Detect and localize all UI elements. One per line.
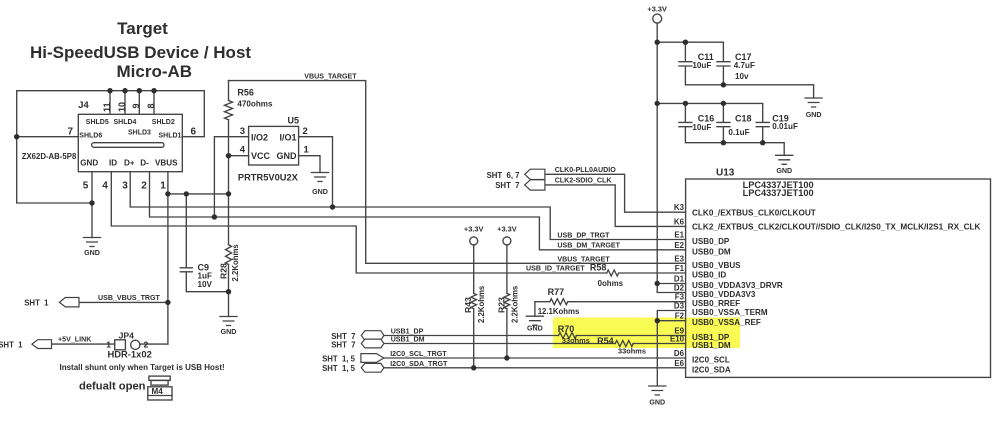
- svg-text:defualt open: defualt open: [79, 380, 146, 392]
- svg-text:SHT 7: SHT 7: [331, 340, 355, 349]
- svg-text:GND: GND: [312, 188, 328, 196]
- svg-text:2.2Kohms: 2.2Kohms: [510, 285, 519, 323]
- svg-text:10V: 10V: [198, 280, 213, 289]
- svg-text:9: 9: [131, 103, 141, 108]
- svg-text:D2: D2: [674, 284, 685, 293]
- svg-text:R70: R70: [558, 324, 575, 334]
- svg-text:ID: ID: [109, 158, 117, 167]
- svg-text:4.7uF: 4.7uF: [734, 61, 755, 70]
- svg-text:+5V_LINK: +5V_LINK: [58, 336, 92, 344]
- svg-text:LPC4337JET100: LPC4337JET100: [743, 188, 814, 198]
- svg-text:E6: E6: [674, 359, 684, 368]
- svg-text:D1: D1: [674, 275, 685, 284]
- svg-text:2: 2: [141, 181, 147, 192]
- svg-text:HDR-1x02: HDR-1x02: [108, 349, 152, 360]
- svg-text:0ohms: 0ohms: [598, 279, 624, 288]
- svg-text:SHLD6: SHLD6: [79, 132, 102, 139]
- svg-text:USB0_DM: USB0_DM: [692, 247, 731, 256]
- svg-text:CLK2_/EXTBUS_CLK2/CLKOUT//SDIO: CLK2_/EXTBUS_CLK2/CLKOUT//SDIO_CLK/I2S0_…: [692, 223, 981, 232]
- svg-text:4: 4: [102, 181, 108, 192]
- svg-text:F2: F2: [675, 312, 685, 321]
- svg-text:10uF: 10uF: [692, 123, 711, 132]
- svg-text:SHT 1: SHT 1: [24, 299, 49, 308]
- svg-text:USB0_RREF: USB0_RREF: [692, 299, 740, 308]
- svg-text:U13: U13: [716, 168, 735, 179]
- svg-text:0.1uF: 0.1uF: [728, 128, 749, 137]
- svg-text:C18: C18: [735, 114, 752, 124]
- svg-text:SHLD5: SHLD5: [86, 119, 109, 126]
- svg-text:GND: GND: [806, 111, 822, 119]
- svg-text:GND: GND: [277, 151, 298, 161]
- svg-text:I2C0_SDA_TRGT: I2C0_SDA_TRGT: [390, 360, 448, 368]
- svg-text:I2C0_SCL: I2C0_SCL: [692, 356, 730, 365]
- svg-text:USB0_VBUS: USB0_VBUS: [692, 261, 741, 270]
- svg-text:CLK0_/EXTBUS_CLK0/CLKOUT: CLK0_/EXTBUS_CLK0/CLKOUT: [692, 209, 816, 218]
- svg-text:11: 11: [102, 102, 112, 112]
- svg-text:R23: R23: [496, 297, 506, 313]
- svg-text:I/O2: I/O2: [251, 132, 268, 142]
- svg-text:F1: F1: [675, 264, 685, 273]
- svg-text:R58: R58: [590, 263, 607, 273]
- svg-text:5: 5: [83, 181, 89, 192]
- svg-text:10uF: 10uF: [692, 61, 711, 70]
- svg-text:Hi-SpeedUSB Device / Host: Hi-SpeedUSB Device / Host: [30, 43, 251, 62]
- svg-text:33ohms: 33ohms: [618, 346, 646, 355]
- svg-text:GND: GND: [84, 249, 100, 257]
- svg-text:SHT 7: SHT 7: [495, 181, 519, 190]
- svg-text:JP4: JP4: [119, 330, 135, 340]
- svg-text:I2C0_SDA: I2C0_SDA: [692, 365, 731, 374]
- svg-text:I/O1: I/O1: [279, 132, 296, 142]
- svg-text:USB0_VSSA_TERM: USB0_VSSA_TERM: [692, 308, 768, 317]
- svg-text:USB0_VDDA3V3: USB0_VDDA3V3: [692, 290, 756, 299]
- svg-text:USB_DM_TARGET: USB_DM_TARGET: [557, 242, 620, 250]
- svg-text:U5: U5: [288, 115, 300, 125]
- svg-text:M4: M4: [152, 387, 164, 396]
- svg-text:3: 3: [240, 126, 245, 137]
- svg-text:USB0_DP: USB0_DP: [692, 237, 730, 246]
- svg-text:PRTR5V0U2X: PRTR5V0U2X: [238, 172, 299, 182]
- svg-text:USB_DP_TRGT: USB_DP_TRGT: [557, 232, 610, 240]
- svg-text:C16: C16: [698, 114, 715, 124]
- svg-text:D6: D6: [674, 349, 685, 358]
- svg-text:VCC: VCC: [251, 151, 271, 161]
- svg-text:C9: C9: [198, 263, 210, 273]
- svg-text:R54: R54: [597, 336, 614, 346]
- svg-text:F3: F3: [675, 293, 685, 302]
- svg-text:+3.3V: +3.3V: [647, 5, 667, 14]
- svg-text:10v: 10v: [735, 72, 749, 81]
- svg-text:E1: E1: [674, 231, 684, 240]
- svg-text:470ohms: 470ohms: [237, 100, 273, 109]
- svg-text:J4: J4: [78, 99, 89, 110]
- svg-text:SHLD3: SHLD3: [128, 129, 151, 136]
- svg-text:Micro-AB: Micro-AB: [117, 62, 193, 81]
- svg-text:SHT 1, 5: SHT 1, 5: [322, 354, 356, 363]
- svg-text:USB1_DM: USB1_DM: [692, 341, 731, 350]
- svg-text:SHT 6, 7: SHT 6, 7: [487, 171, 520, 180]
- svg-text:1: 1: [160, 181, 166, 192]
- svg-text:GND: GND: [776, 167, 792, 175]
- svg-text:D-: D-: [140, 158, 149, 167]
- svg-text:USB0_ID: USB0_ID: [692, 271, 726, 280]
- svg-text:GND: GND: [649, 399, 665, 407]
- svg-text:SHT 1: SHT 1: [0, 341, 23, 350]
- svg-text:+3.3V: +3.3V: [464, 225, 484, 234]
- svg-text:0.01uF: 0.01uF: [772, 122, 798, 131]
- svg-text:3: 3: [122, 181, 128, 192]
- svg-text:SHLD2: SHLD2: [152, 119, 175, 126]
- svg-text:CLK2-SDIO_CLK: CLK2-SDIO_CLK: [555, 176, 613, 184]
- svg-text:CLK0-PLL0AUDIO: CLK0-PLL0AUDIO: [555, 166, 617, 174]
- svg-text:R43: R43: [463, 297, 473, 313]
- svg-text:E2: E2: [674, 241, 684, 250]
- svg-text:2: 2: [303, 126, 308, 137]
- svg-text:R56: R56: [237, 88, 254, 98]
- svg-text:ZX62D-AB-5P8: ZX62D-AB-5P8: [22, 152, 77, 161]
- svg-text:Target: Target: [117, 19, 168, 38]
- svg-text:VBUS: VBUS: [155, 158, 178, 167]
- svg-text:2.2Kohms: 2.2Kohms: [231, 244, 240, 282]
- svg-text:GND: GND: [527, 325, 543, 333]
- svg-text:D3: D3: [674, 302, 685, 311]
- svg-text:E3: E3: [674, 254, 684, 263]
- svg-text:USB_VBUS_TRGT: USB_VBUS_TRGT: [98, 294, 161, 302]
- svg-text:R77: R77: [548, 287, 565, 297]
- svg-text:USB0_VSSA_REF: USB0_VSSA_REF: [692, 318, 761, 327]
- svg-text:D+: D+: [124, 158, 135, 167]
- svg-text:USB0_VDDA3V3_DRVR: USB0_VDDA3V3_DRVR: [692, 281, 783, 290]
- svg-text:+3.3V: +3.3V: [497, 225, 517, 234]
- svg-text:K3: K3: [674, 203, 685, 212]
- svg-text:1: 1: [304, 145, 310, 156]
- svg-text:2.2Kohms: 2.2Kohms: [477, 285, 486, 323]
- svg-text:USB1_DP: USB1_DP: [391, 327, 424, 335]
- svg-text:R28: R28: [219, 263, 229, 279]
- svg-text:4: 4: [240, 145, 246, 156]
- svg-text:GND: GND: [80, 158, 98, 167]
- svg-text:GND: GND: [221, 328, 237, 336]
- svg-text:I2C0_SCL_TRGT: I2C0_SCL_TRGT: [390, 350, 447, 358]
- svg-text:10: 10: [117, 102, 127, 112]
- svg-text:SHLD1: SHLD1: [159, 132, 182, 139]
- svg-text:SHT 1, 5: SHT 1, 5: [322, 364, 356, 373]
- svg-text:8: 8: [146, 103, 156, 108]
- svg-text:33ohms: 33ohms: [562, 336, 590, 345]
- svg-text:K6: K6: [674, 217, 685, 226]
- svg-text:12.1Kohms: 12.1Kohms: [538, 307, 580, 316]
- svg-text:Install shunt only when Target: Install shunt only when Target is USB Ho…: [60, 363, 225, 372]
- svg-text:E10: E10: [670, 335, 685, 344]
- svg-text:USB_ID_TARGET: USB_ID_TARGET: [526, 265, 585, 273]
- svg-text:SHLD4: SHLD4: [114, 119, 137, 126]
- svg-text:USB1_DM: USB1_DM: [391, 336, 425, 344]
- svg-text:VBUS_TARGET: VBUS_TARGET: [304, 72, 357, 80]
- svg-text:7: 7: [67, 127, 73, 138]
- svg-text:6: 6: [191, 127, 197, 138]
